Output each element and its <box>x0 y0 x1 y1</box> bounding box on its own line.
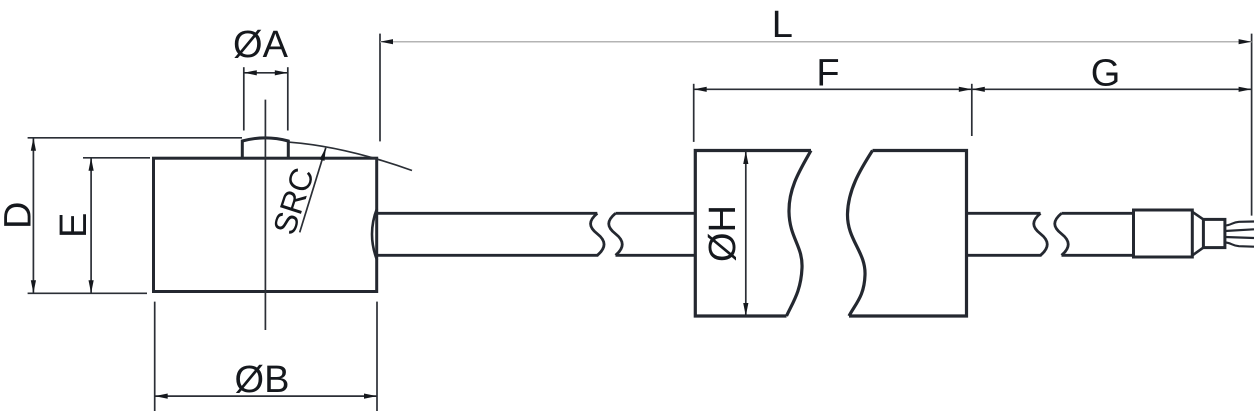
protective sleeve left piece <box>695 151 811 317</box>
dim F line <box>694 88 972 90</box>
cable segment 4 bottom <box>1062 254 1134 257</box>
dim OH arrow bottom <box>743 303 748 316</box>
wire 4 <box>1225 243 1254 247</box>
cable segment 3 bottom <box>967 254 1042 257</box>
dim E line <box>90 158 92 293</box>
centerline <box>264 100 266 330</box>
dim D top extension <box>28 137 242 139</box>
connector taper bottom <box>1192 248 1203 256</box>
svg-text:F: F <box>816 53 839 95</box>
cable break 2 left S <box>1034 213 1048 255</box>
cable segment 4 top <box>1062 212 1134 215</box>
body outline (load cell) <box>154 158 377 291</box>
dim L line (gray) <box>380 41 1252 43</box>
dim L arrow right <box>1239 39 1252 44</box>
wire 1 <box>1225 222 1254 226</box>
dim G arrow left <box>972 87 985 92</box>
dim L arrow left <box>380 39 393 44</box>
dim OB left extension <box>154 302 156 411</box>
dim OB right extension <box>376 302 378 411</box>
dim G arrow right <box>1239 87 1252 92</box>
dim L left extension <box>379 34 381 142</box>
dim E arrow bottom <box>89 280 94 293</box>
dim OA right extension <box>287 67 289 130</box>
dim OA left extension <box>243 67 245 130</box>
dim E top extension <box>83 157 150 159</box>
cable break 2 right S <box>1055 213 1069 255</box>
cable break 1 left S <box>591 213 605 255</box>
svg-text:ØB: ØB <box>235 359 290 401</box>
dim OA arrow left <box>244 70 257 75</box>
dim F arrow left <box>694 87 707 92</box>
wire 2 <box>1225 229 1254 231</box>
dim D line <box>32 138 34 293</box>
cable segment 1 top <box>377 212 597 215</box>
dim D arrow top <box>31 138 36 151</box>
dim D arrow bottom <box>31 280 36 293</box>
dim G line <box>972 88 1252 90</box>
svg-text:G: G <box>1091 53 1121 95</box>
connector ferrule <box>1203 219 1225 247</box>
svg-text:D: D <box>0 202 40 229</box>
dim D/E bottom extension <box>28 292 147 294</box>
dim L right extension <box>1251 34 1253 216</box>
dim F arrow right <box>959 87 972 92</box>
SRC leader arrow <box>320 148 326 161</box>
dim OH line <box>745 151 747 316</box>
cable segment 2 top <box>616 212 695 215</box>
dim OB arrow left <box>155 394 168 399</box>
dim F/G shared extension <box>971 84 973 136</box>
cable segment 3 top <box>967 212 1041 215</box>
dim OB line <box>155 395 377 397</box>
cable segment 2 bottom <box>616 254 695 257</box>
SRC leader line <box>300 148 326 233</box>
dim E arrow top <box>89 158 94 171</box>
wire 3 <box>1225 237 1254 238</box>
dim OH arrow top <box>743 151 748 164</box>
protective sleeve right piece <box>847 151 966 317</box>
svg-text:ØH: ØH <box>702 205 744 262</box>
svg-text:ØA: ØA <box>233 24 289 66</box>
dim OB arrow right <box>364 394 377 399</box>
cable break 1 right S <box>609 213 623 255</box>
cable boot arc <box>372 209 377 261</box>
connector body <box>1134 210 1193 257</box>
dim OA line <box>244 72 288 74</box>
connector taper top <box>1192 212 1203 220</box>
load button <box>242 138 288 158</box>
dim F left extension <box>693 84 695 142</box>
spherical radius arc <box>290 142 413 170</box>
cable segment 1 bottom <box>377 254 598 257</box>
dim OA arrow right <box>275 70 288 75</box>
svg-text:L: L <box>772 4 793 46</box>
svg-text:E: E <box>53 213 95 238</box>
